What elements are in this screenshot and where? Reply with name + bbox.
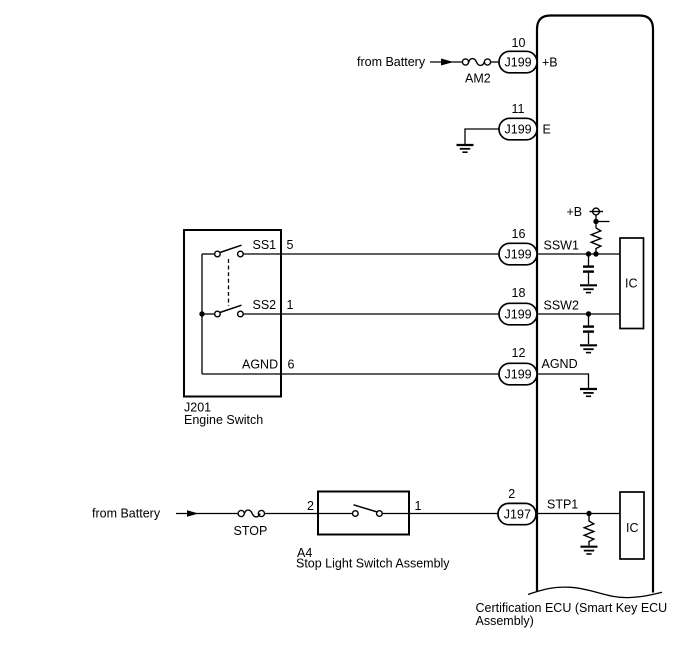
svg-text:1: 1 (287, 298, 294, 312)
svg-text:J199: J199 (505, 55, 532, 69)
svg-text:IC: IC (626, 521, 639, 535)
junction dot cap branch (586, 251, 591, 256)
wire internal vertical (201, 254, 203, 374)
ground SSW2 cap (580, 345, 597, 352)
wire SSW2 to IC (537, 313, 620, 315)
svg-text:J199: J199 (505, 367, 532, 381)
svg-text:Assembly): Assembly) (476, 614, 534, 628)
svg-text:Certification ECU (Smart Key E: Certification ECU (Smart Key ECU (476, 601, 668, 615)
switch linkage dashed (228, 259, 230, 306)
junction dot STP1 (586, 511, 591, 516)
arrow head (441, 59, 454, 66)
+B terminal circle (590, 208, 604, 215)
engine switch box J201 (184, 230, 281, 397)
svg-text:AGND: AGND (242, 358, 278, 372)
capacitor SSW1 (583, 254, 594, 284)
svg-text:2: 2 (307, 499, 314, 513)
ECU box (Certification ECU outline) (537, 16, 653, 593)
junction dot (593, 219, 598, 224)
fuse STOP (238, 510, 318, 517)
svg-text:SSW1: SSW1 (544, 239, 579, 253)
svg-text:J199: J199 (505, 122, 532, 136)
junction dot SSW2 (586, 311, 591, 316)
connector J199 pin 11 (499, 118, 537, 140)
wire STP1 to IC (536, 513, 621, 515)
fuse AM2 (462, 59, 499, 66)
svg-text:Stop Light Switch Assembly: Stop Light Switch Assembly (296, 557, 450, 571)
wire AGND internal (537, 374, 589, 388)
wire into switch (318, 513, 352, 515)
svg-text:STOP: STOP (234, 524, 268, 538)
wire switch to J197 (382, 513, 498, 515)
svg-text:IC: IC (625, 277, 638, 291)
junction dot res branch (593, 251, 598, 256)
svg-text:10: 10 (512, 36, 526, 50)
svg-text:6: 6 (288, 358, 295, 372)
svg-text:16: 16 (512, 227, 526, 241)
connector J199 pin 12 (499, 363, 537, 385)
ground SSW1 cap (580, 285, 597, 292)
svg-text:STP1: STP1 (547, 498, 578, 512)
svg-text:+B: +B (567, 205, 583, 219)
ground AGND (580, 389, 597, 396)
ECU torn bottom edge wave (528, 587, 662, 598)
svg-text:SSW2: SSW2 (544, 299, 579, 313)
switch A4 (353, 505, 383, 517)
ground STP1 (581, 547, 598, 554)
svg-text:from Battery: from Battery (357, 55, 426, 69)
switch SS1 (202, 245, 243, 257)
wire from Battery to fuse AM2 (430, 61, 462, 63)
arrow head bottom (187, 510, 199, 517)
svg-text:J197: J197 (504, 508, 531, 522)
svg-text:5: 5 (287, 238, 294, 252)
connector J197 (498, 503, 536, 524)
IC box lower (620, 492, 644, 559)
wire +B to resistor (595, 215, 597, 228)
resistor pull-up (591, 228, 601, 254)
wire stub right (596, 221, 610, 223)
svg-text:AM2: AM2 (465, 72, 491, 86)
wire SS1 to J199 (243, 253, 499, 255)
wire SS2 to J199 (243, 313, 499, 315)
svg-text:J199: J199 (505, 307, 532, 321)
svg-text:1: 1 (415, 499, 422, 513)
wire SSW1 to IC (537, 253, 620, 255)
svg-text:18: 18 (512, 286, 526, 300)
stop light switch box A4 (318, 492, 409, 535)
resistor STP1 (584, 514, 594, 546)
svg-text:+B: +B (542, 55, 558, 69)
svg-text:SS1: SS1 (253, 238, 277, 252)
ground (E row) (457, 129, 500, 152)
svg-text:from Battery: from Battery (92, 507, 161, 521)
junction dot at SS2 (199, 311, 204, 316)
svg-text:SS2: SS2 (253, 298, 277, 312)
svg-text:AGND: AGND (542, 357, 578, 371)
switch SS2 (202, 305, 243, 317)
wire from Battery to fuse STOP (176, 513, 238, 515)
svg-text:12: 12 (512, 346, 526, 360)
connector J199 pin 18 (499, 303, 537, 325)
capacitor SSW2 (583, 314, 594, 344)
wire AGND to J199 (202, 373, 499, 375)
svg-text:2: 2 (508, 487, 515, 501)
svg-text:Engine Switch: Engine Switch (184, 413, 263, 427)
IC box upper (620, 238, 644, 329)
connector J199 pin 10 (499, 51, 537, 73)
svg-text:J199: J199 (505, 247, 532, 261)
svg-text:11: 11 (512, 102, 525, 116)
svg-text:E: E (543, 122, 551, 136)
connector J199 pin 16 (499, 243, 537, 264)
